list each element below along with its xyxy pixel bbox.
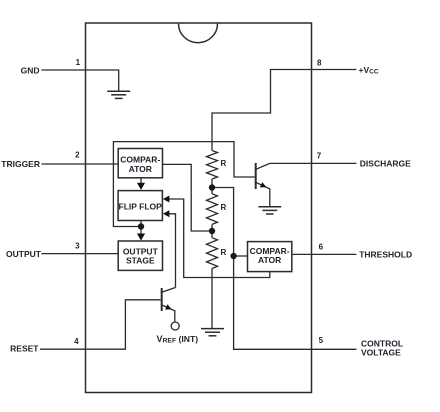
svg-text:R: R xyxy=(221,159,227,168)
svg-text:THRESHOLD: THRESHOLD xyxy=(359,249,412,259)
svg-text:TRIGGER: TRIGGER xyxy=(1,159,40,169)
svg-text:8: 8 xyxy=(317,59,322,68)
svg-text:ATOR: ATOR xyxy=(129,164,152,174)
svg-text:R: R xyxy=(221,248,227,257)
svg-text:4: 4 xyxy=(74,337,79,346)
svg-text:3: 3 xyxy=(75,242,80,251)
svg-text:STAGE: STAGE xyxy=(126,255,155,265)
svg-text:FLIP FLOP: FLIP FLOP xyxy=(119,201,163,211)
svg-text:6: 6 xyxy=(319,243,324,252)
svg-text:5: 5 xyxy=(319,336,324,345)
svg-text:DISCHARGE: DISCHARGE xyxy=(360,159,411,169)
svg-text:OUTPUT: OUTPUT xyxy=(6,249,42,259)
svg-text:2: 2 xyxy=(75,151,80,160)
svg-text:R: R xyxy=(221,203,227,212)
svg-text:RESET: RESET xyxy=(10,344,39,354)
svg-text:VOLTAGE: VOLTAGE xyxy=(361,348,401,358)
svg-text:GND: GND xyxy=(21,65,40,75)
svg-text:1: 1 xyxy=(76,58,81,67)
svg-text:7: 7 xyxy=(317,152,322,161)
svg-text:ATOR: ATOR xyxy=(258,255,281,265)
